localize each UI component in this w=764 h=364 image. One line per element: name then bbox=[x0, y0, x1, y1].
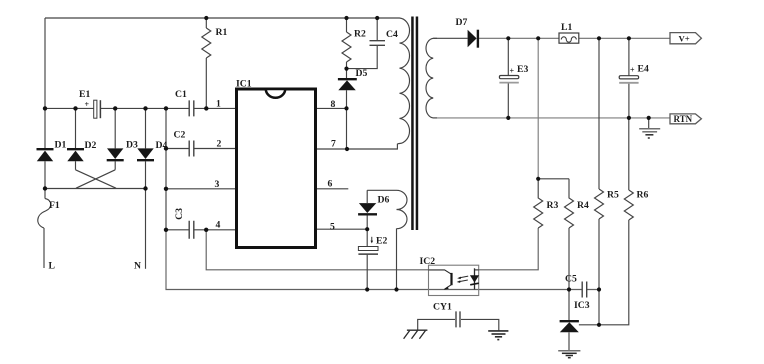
diode D3 bbox=[107, 148, 124, 160]
diode D6 bbox=[358, 203, 377, 214]
wire D3 leads bbox=[114, 108, 116, 169]
wire feedback drop from C3 node to optocoupler bbox=[206, 230, 428, 270]
capacitor C3 bbox=[189, 221, 194, 239]
capacitor C1 bbox=[189, 100, 194, 116]
wire R6 vertical and bottom link to IC3 bbox=[579, 118, 629, 325]
transformer T core bbox=[411, 17, 418, 231]
wire lower bridge bus bbox=[45, 188, 146, 190]
fuse F1 bbox=[38, 199, 51, 228]
capacitor C2 bbox=[189, 141, 194, 157]
label E2 polarity mark bbox=[371, 237, 374, 244]
diode D7 bbox=[468, 30, 478, 48]
svg-text:E1: E1 bbox=[79, 89, 90, 100]
wire secondary top to D7 bbox=[433, 37, 467, 39]
wire R4 bottom bbox=[568, 228, 570, 290]
capacitor C4 bbox=[370, 41, 386, 46]
svg-text:IC1: IC1 bbox=[236, 79, 252, 90]
svg-text:C1: C1 bbox=[175, 89, 187, 100]
wire IC3 leads bbox=[568, 290, 570, 351]
resistor R4 bbox=[565, 179, 574, 228]
svg-text:R5: R5 bbox=[607, 190, 619, 201]
electrolytic capacitor E4 bbox=[619, 76, 638, 83]
diode D2 bbox=[67, 149, 84, 161]
svg-text:C3: C3 bbox=[174, 208, 185, 220]
electrolytic capacitor E2 bbox=[358, 247, 378, 255]
wire secondary bottom RTN bus bbox=[433, 117, 671, 119]
wire R3 R4 top link bbox=[538, 178, 569, 180]
wire ground stub near RTN bbox=[648, 118, 650, 128]
ground symbol at RTN bbox=[639, 129, 660, 138]
ground symbol below CY1 bbox=[488, 331, 508, 340]
diode D1 bbox=[37, 149, 54, 161]
svg-text:R3: R3 bbox=[547, 200, 559, 211]
wire D1 leads bbox=[44, 108, 46, 188]
wire D6 leads bbox=[366, 190, 368, 229]
svg-text:N: N bbox=[134, 261, 141, 272]
wire CY1 left lead bbox=[418, 319, 455, 330]
svg-text:8: 8 bbox=[331, 99, 336, 110]
svg-text:D5: D5 bbox=[356, 68, 368, 79]
wire R1 top connection bbox=[205, 18, 207, 28]
wire L1 to V+ connector bbox=[579, 37, 670, 39]
svg-text:IC2: IC2 bbox=[420, 256, 436, 267]
transformer T auxiliary winding bbox=[397, 190, 408, 228]
svg-text:R4: R4 bbox=[577, 200, 589, 211]
wire pin2 line with C2 bbox=[166, 148, 236, 150]
svg-text:R2: R2 bbox=[354, 29, 366, 40]
svg-text:D7: D7 bbox=[456, 17, 468, 28]
wire aux winding top to D6 bbox=[367, 189, 396, 191]
chassis ground left of CY1 bbox=[404, 330, 428, 339]
svg-text:3: 3 bbox=[215, 179, 220, 190]
wire R3 bottom to optocoupler LED bbox=[479, 228, 539, 270]
svg-text:4: 4 bbox=[216, 220, 221, 231]
svg-text:C4: C4 bbox=[386, 29, 398, 40]
svg-text:D4: D4 bbox=[156, 140, 168, 151]
wire R5 vertical bbox=[598, 38, 600, 325]
wire top rail bbox=[45, 17, 400, 19]
optocoupler IC2 bbox=[429, 265, 480, 295]
svg-text:5: 5 bbox=[330, 222, 335, 233]
svg-text:2: 2 bbox=[217, 139, 222, 150]
connector V+ bbox=[670, 33, 701, 44]
svg-text:L1: L1 bbox=[561, 22, 572, 33]
wire bridge cross D3 to lower bus bbox=[76, 170, 115, 188]
svg-text:CY1: CY1 bbox=[433, 302, 452, 313]
svg-text:7: 7 bbox=[331, 139, 336, 150]
wire pin8 stub bbox=[317, 107, 347, 109]
connector RTN bbox=[670, 114, 701, 124]
transformer T primary winding bbox=[397, 18, 409, 144]
svg-text:R6: R6 bbox=[637, 190, 649, 201]
wire bottom bus from left bus to C5 bbox=[166, 230, 599, 290]
wire R1 bottom connection bbox=[205, 58, 207, 108]
diode D4 bbox=[137, 148, 154, 160]
resistor R6 bbox=[624, 190, 633, 220]
electrolytic capacitor E1 bbox=[94, 100, 101, 118]
wire main rectified bus y=108 bbox=[45, 107, 236, 109]
wire R3/R4 feed drop from V+ node bbox=[537, 38, 539, 179]
wire left vertical from top rail to bus bbox=[44, 18, 46, 108]
diode D5 bbox=[338, 79, 357, 90]
IC U1 main controller body bbox=[237, 89, 316, 248]
resistor R5 bbox=[595, 189, 604, 219]
inductor L1 bbox=[559, 33, 579, 43]
wire aux winding bottom drop bbox=[396, 229, 398, 290]
svg-text:1: 1 bbox=[216, 99, 221, 110]
wire N terminal bbox=[145, 189, 147, 269]
wire pin3 line bbox=[166, 188, 236, 190]
svg-text:C5: C5 bbox=[565, 274, 577, 285]
capacitor C5 bbox=[582, 282, 587, 298]
svg-text:D2: D2 bbox=[85, 140, 97, 151]
resistor R2 bbox=[342, 32, 351, 62]
svg-text:RTN: RTN bbox=[674, 114, 693, 124]
svg-text:6: 6 bbox=[328, 179, 333, 190]
capacitor CY1 bbox=[456, 311, 460, 327]
ground symbol below IC3 bbox=[558, 351, 580, 358]
wire left bus x=166 bbox=[165, 108, 167, 229]
wire E4 leads bbox=[628, 38, 630, 118]
wire L lead to fuse bbox=[44, 189, 46, 199]
wire D2 leads bbox=[75, 108, 77, 169]
svg-text:D3: D3 bbox=[126, 140, 138, 151]
wire bridge cross D2 to lower bus bbox=[76, 170, 117, 188]
wire C4 leads and link to snubber bbox=[347, 18, 378, 69]
wire E3 leads bbox=[507, 38, 509, 118]
svg-text:D1: D1 bbox=[55, 140, 67, 151]
svg-text:D6: D6 bbox=[378, 195, 390, 206]
resistor R3 bbox=[534, 179, 543, 228]
shunt regulator IC3 bbox=[560, 321, 579, 332]
wire pin5 stub bbox=[317, 228, 368, 230]
resistor R1 bbox=[202, 28, 211, 58]
svg-text:F1: F1 bbox=[49, 200, 60, 211]
transformer T secondary winding bbox=[426, 38, 437, 118]
wire D7 cathode to L1 bbox=[479, 37, 559, 39]
wire pin6 stub bbox=[317, 188, 349, 190]
svg-text:E2: E2 bbox=[376, 236, 387, 247]
svg-text:+: + bbox=[85, 100, 90, 109]
svg-text:V+: V+ bbox=[679, 33, 690, 43]
wire D4 leads bbox=[145, 108, 147, 188]
svg-text:R1: R1 bbox=[216, 27, 228, 38]
electrolytic capacitor E3 bbox=[499, 76, 518, 83]
svg-text:L: L bbox=[49, 261, 56, 272]
svg-text:+: + bbox=[510, 67, 515, 76]
wire snubber vertical R2/D5 leads bbox=[346, 18, 348, 149]
wire L terminal below fuse bbox=[43, 228, 45, 268]
wire CY1 right lead bbox=[461, 319, 499, 330]
svg-text:IC3: IC3 bbox=[574, 300, 590, 311]
wire pin7 stub to transformer bbox=[317, 144, 398, 149]
wire pin4 line with C3 bbox=[166, 229, 236, 231]
wire E2 leads bbox=[366, 229, 368, 289]
svg-text:E4: E4 bbox=[638, 64, 649, 75]
svg-text:C2: C2 bbox=[174, 130, 186, 141]
svg-text:+: + bbox=[630, 66, 635, 75]
svg-text:E3: E3 bbox=[517, 64, 528, 75]
